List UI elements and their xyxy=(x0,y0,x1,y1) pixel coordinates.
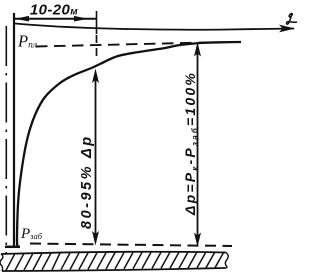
dashed vertical at 10-20 m boundary xyxy=(96,35,98,60)
measure arrow 80-95% (double-headed) xyxy=(95,74,97,238)
distance axis with arrow to L xyxy=(15,24,294,30)
formation band bottom edge xyxy=(2,268,225,271)
P_zab level dashed line xyxy=(30,244,232,247)
svg-text:80-95% Δр: 80-95% Δр xyxy=(79,134,95,229)
dimension line 10-20 m xyxy=(15,18,97,20)
wellbore bottom tick xyxy=(5,246,20,249)
formation band top edge xyxy=(1,252,226,254)
extension tick at 10-20 m xyxy=(96,11,98,34)
pressure axis (vertical solid) xyxy=(13,13,15,247)
dimension arrowhead left xyxy=(15,16,29,22)
axis arrowhead L xyxy=(279,25,295,33)
P_pl level dashed line xyxy=(36,43,205,47)
measure arrow 100% (double-headed) xyxy=(197,48,199,240)
pressure distribution curve xyxy=(17,42,241,247)
label L xyxy=(286,14,296,25)
hatching of formation xyxy=(6,252,224,271)
dimension arrowhead right xyxy=(74,16,88,22)
formation band right torn edge xyxy=(225,253,228,269)
formation band left torn edge xyxy=(0,254,3,271)
well centerline (dash-dot) xyxy=(5,26,7,253)
